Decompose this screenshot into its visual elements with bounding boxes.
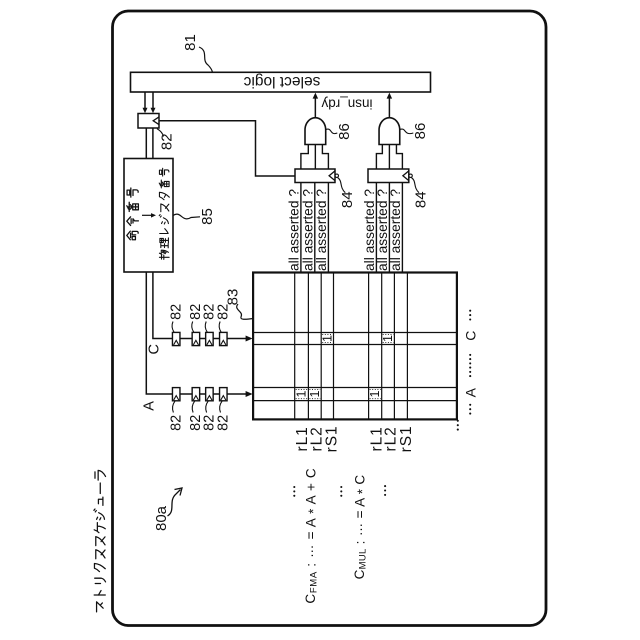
svg-text:select logic: select logic	[243, 73, 320, 90]
latch 82 row A #2	[192, 388, 200, 401]
leader 84-1	[338, 178, 346, 193]
svg-text:all asserted ?: all asserted ?	[314, 189, 329, 271]
svg-text:insn_rdy: insn_rdy	[321, 96, 372, 111]
box85 text insn-number to phys-reg-number	[127, 168, 170, 259]
title text matrix-scheduler (vertical)	[94, 470, 106, 612]
wire A row	[146, 272, 246, 394]
row dots top	[469, 310, 471, 312]
leader 83	[237, 304, 253, 319]
mapping box 85	[124, 159, 173, 273]
latch 84-1 clock triangle	[329, 171, 335, 181]
wire reg82 to box85 left	[145, 128, 147, 159]
wires latch84-2 to matrix	[375, 183, 377, 273]
svg-text:rS1: rS1	[324, 425, 341, 452]
matrix row lines	[253, 332, 457, 334]
svg-text:84: 84	[413, 191, 430, 208]
leader 80a with arrow	[168, 490, 181, 517]
row dots middle	[469, 354, 471, 356]
latch 82 row C #4	[220, 332, 228, 345]
latch 82 row C #3	[206, 332, 214, 345]
matrix cell 1 (row C, rS1 fma)	[322, 333, 332, 335]
leader 82 top	[157, 129, 164, 137]
svg-text:1: 1	[381, 335, 395, 342]
leader 85	[173, 214, 200, 219]
svg-text:A: A	[463, 387, 479, 397]
matrix box 83	[253, 273, 457, 420]
wire reg82 to box85 right	[152, 128, 154, 159]
wire reg82 to latch 84a	[159, 121, 295, 176]
latch 82 row C #1	[172, 332, 180, 345]
input jog wires gate 2	[388, 145, 390, 170]
latch 82 row A #3	[206, 388, 214, 401]
svg-text:84: 84	[339, 191, 356, 208]
matrix cell 1 (row A, rL2 fma)	[309, 388, 320, 390]
latch 84-1 bubble	[335, 174, 338, 177]
svg-text:82: 82	[169, 415, 185, 431]
svg-text:A: A	[141, 401, 157, 411]
svg-text:81: 81	[182, 34, 199, 51]
formula dots 3	[384, 485, 386, 487]
latch 82 row A #1	[172, 388, 180, 401]
matrix cell 1 (row A, rL1 mul)	[370, 388, 381, 390]
svg-text:83: 83	[224, 289, 241, 306]
matrix cell 1 (row A, rL1 fma)	[296, 388, 308, 390]
svg-text:86: 86	[412, 123, 429, 140]
matrix column lines	[294, 273, 296, 420]
register 82 box	[138, 114, 159, 129]
svg-text:rS1: rS1	[398, 425, 415, 452]
svg-text:1: 1	[308, 391, 322, 398]
svg-text:82: 82	[158, 133, 175, 150]
svg-text:C: C	[147, 344, 163, 354]
leader 84-2	[411, 178, 419, 193]
leader 86-1	[326, 129, 337, 134]
svg-text:1: 1	[320, 335, 334, 342]
svg-text:82: 82	[169, 304, 185, 320]
leader 81	[199, 47, 213, 72]
wires latch84-1 to matrix	[300, 183, 302, 273]
formula dots 2	[340, 486, 342, 488]
matrix cell 1 (row C, rL2 mul)	[383, 333, 394, 335]
gate 1 output wire	[314, 98, 316, 118]
svg-text:80a: 80a	[153, 505, 170, 531]
latch 84-2 clock triangle	[403, 171, 409, 181]
input jog wires gate 1	[314, 145, 316, 170]
svg-text:82: 82	[216, 415, 232, 431]
figure outer border	[113, 11, 547, 626]
wire C row	[153, 272, 247, 339]
svg-text:1: 1	[295, 391, 309, 398]
svg-text:85: 85	[199, 208, 216, 225]
corner dots	[457, 420, 459, 422]
row dots bottom	[469, 404, 471, 406]
select logic box	[131, 72, 431, 92]
svg-text:C: C	[463, 331, 479, 341]
wire select logic to reg 82 (right)	[152, 92, 154, 109]
leader 86-2	[400, 129, 413, 134]
register 82 clock triangle	[153, 117, 159, 125]
latch 84-2 box	[368, 169, 409, 183]
latch 82 row C #2	[192, 332, 200, 345]
svg-text:1: 1	[368, 391, 382, 398]
wire select logic to reg 82 (left)	[144, 92, 146, 109]
svg-text:all asserted ?: all asserted ?	[287, 189, 302, 271]
and gate 86-1	[305, 118, 326, 145]
formula dots 1	[293, 486, 295, 488]
latch 82 row A #4	[220, 388, 228, 401]
svg-text:86: 86	[336, 123, 353, 140]
latch 84-1 box	[295, 169, 335, 183]
svg-text:all asserted ?: all asserted ?	[388, 189, 403, 271]
and gate 86-2	[379, 118, 400, 145]
gate 2 output wire	[388, 98, 390, 118]
latch 84-2 bubble	[409, 174, 412, 177]
